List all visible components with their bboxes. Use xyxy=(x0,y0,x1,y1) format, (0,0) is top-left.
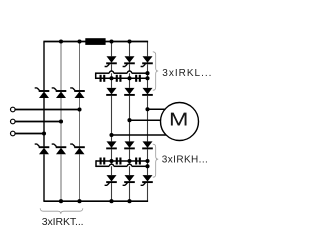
node: lower cap row at col 3 xyxy=(145,159,149,163)
wire: crossover hump over col 2 (lower) xyxy=(127,164,131,166)
wire: col 1 to motor xyxy=(112,134,167,136)
thyristor Q9 (inverter top, col 3) xyxy=(141,56,153,66)
wire: bottom DC bus xyxy=(43,200,148,202)
thyristor Q2 (left bridge bottom, col 3) xyxy=(70,144,85,154)
thyristor Q7 (inverter top, col 1) xyxy=(105,56,117,66)
motor M (3-phase) xyxy=(161,103,199,141)
capacitor C6 (lower) xyxy=(135,158,141,165)
svg-text:3xIRKH...: 3xIRKH... xyxy=(162,155,208,166)
capacitor C2 (upper) xyxy=(116,75,122,82)
node: top bus junction at inverter column 2 xyxy=(127,39,131,43)
thyristor Q6 (left bridge bottom, col 2) xyxy=(52,144,67,154)
node: upper cap row at col 3 xyxy=(145,76,149,80)
diode D2 (upper, col 2) xyxy=(124,88,135,96)
wire: left bridge column 2 vertical xyxy=(60,42,62,202)
node: phase L1 junction xyxy=(77,107,81,111)
thyristor Q5 (left bridge top, col 3) xyxy=(70,88,85,98)
node: lower cap row at col 1 xyxy=(109,159,113,163)
terminal: AC input L1 xyxy=(11,107,16,112)
thyristor Q1 (left bridge top, col 1) xyxy=(35,88,50,98)
wire: upper hop line (joint to col3, hops cols 1-2) xyxy=(96,72,148,79)
wire: left bridge column 3 vertical xyxy=(79,42,81,202)
thyristor Q3 (left bridge top, col 2) xyxy=(52,88,67,98)
node: top bus junction at inverter column 1 xyxy=(109,39,113,43)
wire: crossover hump over col 2 (upper) xyxy=(127,71,131,73)
wire: inverter column 3 vertical xyxy=(147,42,149,202)
node: lower hop line at col 3 xyxy=(145,164,149,168)
wire: phase L2 to bridge xyxy=(15,121,61,123)
wire: upper capacitor row xyxy=(96,77,148,79)
wire: top DC bus xyxy=(43,41,148,43)
wire: col 3 to motor xyxy=(148,108,166,110)
svg-text:3xIRKT...: 3xIRKT... xyxy=(42,216,84,228)
wire: crossover hump over col 1 (lower) xyxy=(109,164,113,166)
diode D6 (lower, col 3) xyxy=(142,141,153,149)
node: upper hop line at col 3 xyxy=(145,71,149,75)
node: upper cap row at col 1 xyxy=(109,76,113,80)
diode D3 (upper, col 3) xyxy=(142,88,153,96)
wire: phase L1 to bridge xyxy=(15,109,79,111)
node: bottom bus junction at left column 3 xyxy=(77,199,81,203)
wire: lower hop line (joint to col3, hops cols 1-2) xyxy=(96,160,148,167)
node: bottom bus junction at inverter column 1 xyxy=(109,199,113,203)
node: top bus junction at left column 3 xyxy=(77,39,81,43)
capacitor C3 (upper) xyxy=(135,75,141,82)
wire: left bridge column 1 vertical xyxy=(43,42,45,202)
capacitor C1 (upper) xyxy=(100,75,106,82)
thyristor Q4 (left bridge bottom, col 1) xyxy=(35,144,50,154)
inductor: DC link choke xyxy=(85,38,105,45)
node: upper cap row at col 2 xyxy=(127,76,131,80)
node: motor phase tap col 1 xyxy=(109,133,113,137)
node: motor phase tap col 2 xyxy=(127,118,131,122)
thyristor Q12 (inverter bottom, col 3) xyxy=(141,175,153,185)
wire: inverter column 2 vertical xyxy=(129,42,131,202)
wire: inverter column 1 vertical xyxy=(111,42,113,202)
node: phase L3 junction xyxy=(42,131,46,135)
wire: col 2 to motor xyxy=(130,119,162,121)
wire: lower capacitor row xyxy=(96,160,148,162)
node: motor phase tap col 3 xyxy=(145,107,149,111)
capacitor C4 (lower) xyxy=(100,158,106,165)
diode D4 (lower, col 1) xyxy=(106,141,117,149)
thyristor Q11 (inverter bottom, col 2) xyxy=(123,175,135,185)
wire: crossover hump over col 1 (upper) xyxy=(109,71,113,73)
node: top bus junction at left column 2 xyxy=(59,39,63,43)
node: lower cap row at col 2 xyxy=(127,159,131,163)
capacitor C5 (lower) xyxy=(116,158,122,165)
terminal: AC input L2 xyxy=(11,119,16,124)
brace: input bridge modules xyxy=(40,208,83,214)
diode D1 (upper, col 1) xyxy=(106,88,117,96)
wire: phase L3 to bridge xyxy=(15,133,44,135)
thyristor Q8 (inverter top, col 2) xyxy=(123,56,135,66)
node: bottom bus junction at left column 2 xyxy=(59,199,63,203)
thyristor Q10 (inverter bottom, col 1) xyxy=(105,175,117,185)
node: phase L2 junction xyxy=(59,119,63,123)
diode D5 (lower, col 2) xyxy=(124,141,135,149)
node: bottom bus junction at inverter column 2 xyxy=(127,199,131,203)
terminal: AC input L3 xyxy=(11,131,16,136)
brace: upper inverter group xyxy=(153,52,158,90)
svg-text:3xIRKL...: 3xIRKL... xyxy=(162,68,212,79)
brace: lower inverter group xyxy=(153,144,158,177)
